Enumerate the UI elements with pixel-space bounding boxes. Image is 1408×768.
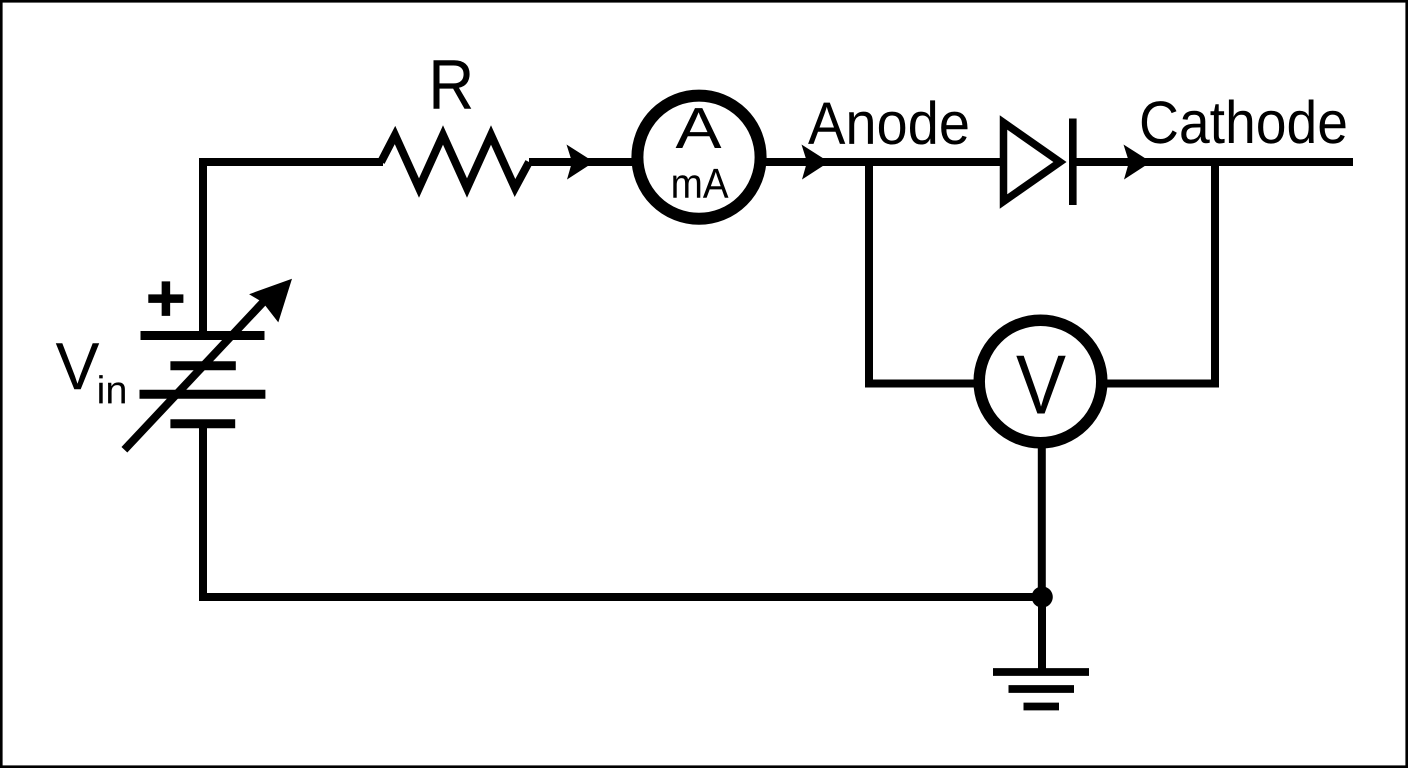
node Anode label <box>808 100 967 144</box>
current direction arrow 2 <box>802 145 830 180</box>
ground bar 2 <box>1009 685 1075 693</box>
variable voltage source Vin: variability arrow head <box>249 279 292 323</box>
wire from diode cathode to right edge <box>1073 158 1353 166</box>
ground bar 3 <box>1024 703 1060 711</box>
junction node dot <box>1032 586 1053 607</box>
wire voltmeter left branch <box>865 380 985 388</box>
diode cathode bar <box>1069 119 1077 206</box>
wire from source negative terminal down and right to junction <box>203 424 1042 597</box>
variable voltage source Vin: plate 1 long <box>141 331 265 340</box>
source label Vin: V <box>56 343 99 389</box>
wire from ammeter to diode anode <box>758 158 1003 166</box>
node Cathode label <box>1142 100 1346 144</box>
variable voltage source Vin: plate 2 short <box>170 361 235 370</box>
variable voltage source Vin: plus sign <box>148 281 183 316</box>
wire voltmeter right branch <box>1097 380 1219 388</box>
voltmeter V <box>979 320 1102 443</box>
wire from resistor to ammeter <box>529 158 640 166</box>
current direction arrow 3 <box>1124 145 1152 180</box>
ground bar 1 <box>993 668 1089 676</box>
current direction arrow 1 <box>567 145 595 180</box>
variable voltage source Vin: variability arrow shaft <box>124 297 268 450</box>
wire from cathode node down to voltmeter right <box>1211 162 1219 384</box>
ammeter A (mA) <box>637 96 760 219</box>
diode <box>1004 123 1061 202</box>
variable voltage source Vin: plate 3 long <box>140 390 266 399</box>
wire junction to ground <box>1038 597 1046 672</box>
wire from voltmeter down to ground junction <box>1038 443 1046 600</box>
resistor R <box>381 135 529 188</box>
wire from source positive terminal up and right to resistor <box>203 162 383 333</box>
variable voltage source Vin: plate 4 short <box>170 419 235 428</box>
wire from anode node down to voltmeter left <box>865 162 873 384</box>
resistor R value label <box>434 60 472 108</box>
source label Vin: in subscript <box>99 375 125 403</box>
